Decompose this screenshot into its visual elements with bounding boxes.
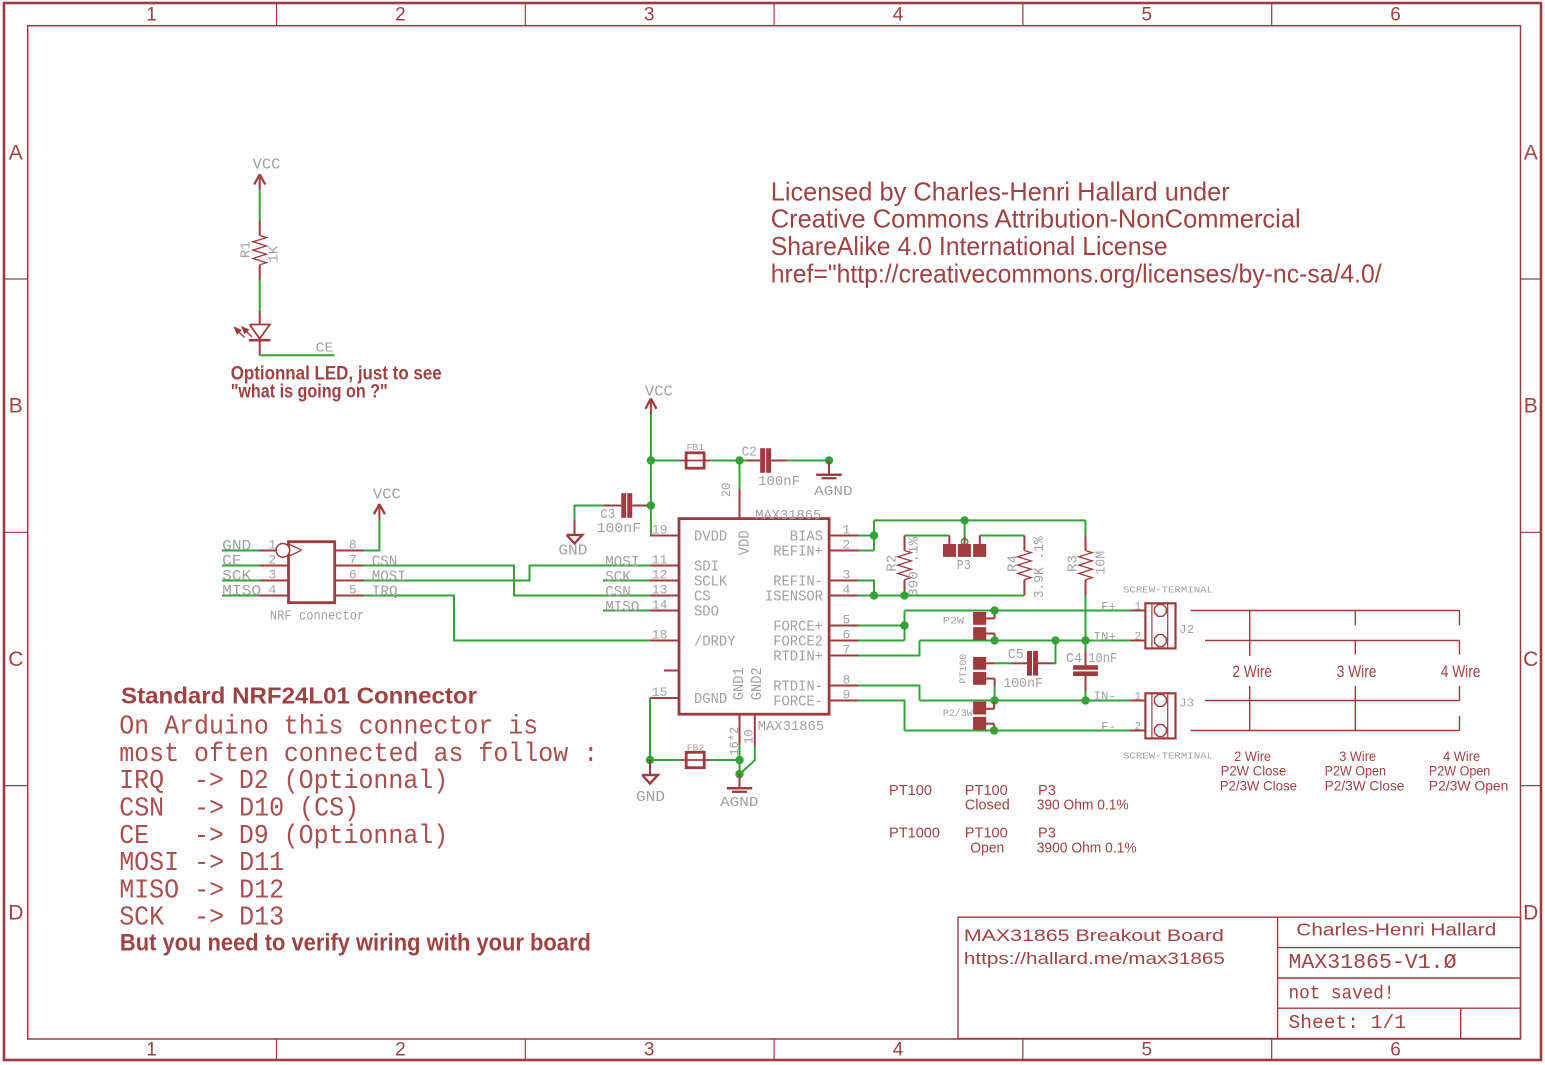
wire pin 10 down diagonal — [740, 745, 755, 774]
svg-text:SDO: SDO — [694, 604, 719, 620]
svg-text:2: 2 — [395, 5, 406, 26]
wire IRQ net to /DRDY — [364, 596, 650, 641]
svg-text:VCC: VCC — [373, 487, 401, 503]
svg-text:2 Wire: 2 Wire — [1232, 663, 1272, 681]
svg-text:SCLK: SCLK — [694, 574, 727, 590]
svg-text:3 Wire: 3 Wire — [1339, 748, 1376, 764]
svg-text:SCK: SCK — [222, 569, 252, 585]
wire pin3 REFIN- — [858, 581, 874, 596]
jumper P3 pads — [943, 544, 956, 557]
svg-text:FB2: FB2 — [687, 743, 705, 754]
svg-text:REFIN-: REFIN- — [773, 574, 823, 590]
wire P3 right pad to R4 top — [980, 535, 1025, 537]
svg-text:1: 1 — [1135, 692, 1142, 704]
svg-text:GND: GND — [636, 790, 665, 806]
svg-text:7: 7 — [843, 642, 851, 657]
wire VCC rail down to DVDD — [650, 414, 652, 536]
svg-text:RTDIN-: RTDIN- — [773, 679, 823, 695]
svg-text:10nF: 10nF — [1088, 652, 1117, 667]
svg-text:VCC: VCC — [253, 158, 281, 174]
capacitor C5 — [1027, 651, 1032, 676]
4-wire column stubs — [1459, 611, 1461, 626]
svg-text:Open: Open — [970, 839, 1004, 856]
svg-text:IN-: IN- — [1093, 690, 1116, 704]
svg-text:CE: CE — [316, 341, 334, 356]
wire pin9 FORCE- to F- line — [858, 701, 905, 731]
svg-text:C: C — [8, 648, 23, 671]
IC right pins — [829, 535, 858, 537]
svg-text:6: 6 — [1390, 5, 1401, 26]
wire FB1 to C2 — [711, 460, 746, 462]
ferrite bead FB2 — [680, 759, 711, 761]
svg-text:CE -> D9 (Optionnal): CE -> D9 (Optionnal) — [119, 821, 448, 851]
svg-text:MAX31865 Breakout Board: MAX31865 Breakout Board — [964, 927, 1224, 945]
resistor R1 — [259, 221, 261, 236]
wire top net to R3 — [874, 519, 1086, 521]
svg-text:PT100: PT100 — [889, 782, 932, 799]
svg-text:R4: R4 — [1006, 555, 1021, 572]
svg-text:Standard NRF24L01 Connector: Standard NRF24L01 Connector — [121, 682, 477, 708]
svg-text:ShareAlike 4.0 International L: ShareAlike 4.0 International License — [771, 231, 1168, 261]
svg-text:FORCE+: FORCE+ — [773, 619, 823, 635]
svg-text:FORCE-: FORCE- — [773, 694, 823, 710]
svg-text:SDI: SDI — [694, 559, 719, 575]
wire to AGND — [739, 760, 741, 774]
svg-text:IN+: IN+ — [1093, 630, 1116, 644]
svg-text:11: 11 — [652, 552, 668, 567]
svg-text:CS: CS — [694, 589, 711, 605]
wire C2 to AGND — [787, 460, 829, 462]
svg-text:R2: R2 — [885, 555, 900, 572]
svg-text:6: 6 — [1390, 1040, 1401, 1061]
svg-text:GND1: GND1 — [732, 667, 748, 700]
svg-text:"what is going on ?": "what is going on ?" — [231, 382, 388, 403]
wire CSN net — [364, 566, 650, 596]
svg-text:GND: GND — [222, 539, 251, 555]
wire ISENSOR net — [858, 595, 1024, 597]
wire R1 to LED — [259, 280, 261, 311]
wire pin5 FORCE+ — [858, 625, 905, 627]
ground AGND — [739, 774, 741, 787]
svg-text:ISENSOR: ISENSOR — [765, 589, 823, 605]
3-wire column stubs — [1354, 611, 1356, 626]
resistor R3 — [1085, 536, 1087, 551]
ferrite bead FB1 — [680, 460, 711, 462]
svg-text:But you need to verify wiring: But you need to verify wiring with your … — [120, 929, 591, 956]
svg-text:2: 2 — [269, 552, 277, 567]
svg-text:D: D — [8, 901, 23, 924]
svg-text:MOSI: MOSI — [372, 569, 406, 585]
wire F+ line — [905, 610, 1131, 612]
screw terminal J3 — [1145, 693, 1175, 738]
wire to P3 center pad — [964, 520, 966, 536]
wire C3 to GND — [575, 506, 604, 520]
ground GND — [574, 520, 576, 535]
wire MOSI net — [364, 566, 650, 581]
svg-text:DGND: DGND — [694, 692, 727, 708]
svg-text:NRF connector: NRF connector — [270, 608, 364, 624]
svg-text:20: 20 — [720, 483, 734, 498]
svg-text:J3: J3 — [1179, 697, 1194, 711]
svg-text:4: 4 — [893, 5, 904, 26]
svg-text:2 Wire: 2 Wire — [1234, 748, 1271, 764]
svg-text:1: 1 — [146, 5, 157, 26]
svg-text:FORCE2: FORCE2 — [773, 634, 823, 650]
connector NRF24L01 J1 — [289, 542, 335, 603]
svg-text:1: 1 — [1135, 602, 1142, 614]
wire MISO stub at IC — [603, 610, 650, 612]
svg-text:IRQ -> D2 (Optionnal): IRQ -> D2 (Optionnal) — [119, 766, 448, 796]
svg-text:13: 13 — [652, 582, 668, 597]
svg-text:GND: GND — [558, 543, 587, 559]
svg-text:4: 4 — [843, 582, 851, 597]
svg-text:VCC: VCC — [645, 384, 673, 400]
svg-text:100nF: 100nF — [758, 475, 800, 490]
svg-text:A: A — [1524, 141, 1538, 164]
wire FB2 to AGND junction — [711, 759, 740, 761]
svg-text:MAX31865-V1.Ø: MAX31865-V1.Ø — [1289, 951, 1457, 975]
LED D1 — [259, 311, 261, 325]
svg-text:SCK: SCK — [605, 570, 631, 586]
svg-text:P2W: P2W — [943, 615, 965, 627]
IC left pins — [650, 535, 679, 537]
svg-text:https://hallard.me/max31865: https://hallard.me/max31865 — [964, 950, 1225, 968]
svg-text:href="http://creativecommons.o: href="http://creativecommons.org/license… — [771, 259, 1383, 289]
svg-text:BIAS: BIAS — [790, 529, 823, 545]
solder jumper P2W — [973, 612, 986, 625]
svg-text:5: 5 — [1142, 5, 1153, 26]
svg-text:4 Wire: 4 Wire — [1443, 748, 1480, 764]
svg-text:7: 7 — [349, 552, 357, 567]
capacitor C4 — [1073, 665, 1098, 670]
svg-text:4: 4 — [269, 582, 277, 597]
svg-text:1: 1 — [146, 1040, 157, 1061]
svg-text:P2/3W Close: P2/3W Close — [1220, 778, 1297, 794]
svg-text:AGND: AGND — [720, 795, 759, 811]
wire top net corner to R3 top — [1085, 520, 1087, 535]
solder jumper P2/3W — [973, 702, 986, 715]
svg-text:2: 2 — [395, 1040, 406, 1061]
svg-text:2: 2 — [843, 537, 851, 552]
svg-text:14: 14 — [652, 597, 668, 612]
wire IN+ line — [920, 640, 1131, 642]
svg-text:390 .1%: 390 .1% — [907, 536, 922, 597]
svg-text:MISO: MISO — [222, 584, 261, 600]
svg-text:9: 9 — [843, 687, 851, 702]
svg-text:RTDIN+: RTDIN+ — [773, 649, 823, 665]
svg-text:3.9K .1%: 3.9K .1% — [1033, 535, 1048, 598]
IC top pin 20 VDD — [739, 490, 741, 519]
svg-text:100nF: 100nF — [597, 522, 641, 537]
svg-text:not saved!: not saved! — [1289, 983, 1395, 1005]
svg-text:2: 2 — [1135, 722, 1142, 734]
svg-text:PT1000: PT1000 — [889, 825, 940, 842]
wire LED to CE label — [260, 354, 335, 356]
svg-text:18: 18 — [652, 627, 668, 642]
wire F- line — [905, 730, 1131, 732]
svg-text:4: 4 — [893, 1040, 904, 1061]
svg-text:B: B — [9, 395, 23, 418]
net stub GND — [222, 550, 260, 552]
svg-text:MOSI -> D11: MOSI -> D11 — [119, 848, 284, 878]
svg-text:8: 8 — [349, 537, 357, 552]
ground AGND — [828, 461, 830, 474]
junction — [647, 456, 655, 464]
svg-text:1: 1 — [269, 537, 277, 552]
svg-text:F+: F+ — [1101, 600, 1116, 614]
svg-text:10M: 10M — [1094, 551, 1109, 575]
svg-text:4 Wire: 4 Wire — [1441, 663, 1481, 681]
svg-text:Licensed by Charles-Henri Hall: Licensed by Charles-Henri Hallard under — [771, 177, 1230, 207]
svg-text:3: 3 — [269, 567, 277, 582]
svg-text:1K: 1K — [267, 245, 282, 263]
svg-text:12: 12 — [652, 567, 668, 582]
svg-text:IRQ: IRQ — [372, 584, 398, 600]
svg-text:D: D — [1523, 901, 1538, 924]
svg-text:P2/3W Close: P2/3W Close — [1325, 778, 1405, 794]
resistor R2 — [904, 536, 906, 551]
svg-text:F-: F- — [1101, 720, 1116, 734]
svg-text:SCREW-TERMINAL: SCREW-TERMINAL — [1123, 586, 1213, 596]
net stub MISO — [222, 595, 260, 597]
svg-text:P2W Close: P2W Close — [1221, 763, 1287, 779]
svg-text:6: 6 — [843, 627, 851, 642]
wire IN- line — [920, 700, 1131, 702]
net stub SCK — [222, 580, 260, 582]
svg-text:VDD: VDD — [737, 530, 753, 555]
svg-text:15: 15 — [652, 685, 668, 700]
svg-text:On Arduino this connector is: On Arduino this connector is — [119, 712, 538, 742]
svg-text:FB1: FB1 — [687, 442, 705, 453]
IC bottom pins — [739, 714, 741, 745]
screw terminal J2 — [1145, 603, 1175, 648]
wire pin1 BIAS — [858, 535, 874, 537]
ground GND — [649, 760, 651, 775]
svg-text:3 Wire: 3 Wire — [1337, 663, 1377, 681]
wire DGND to FB2 and GND — [649, 698, 651, 760]
svg-text:SCREW-TERMINAL: SCREW-TERMINAL — [1123, 752, 1213, 762]
wire pin2 REFIN+ — [858, 550, 874, 552]
wire pin6 FORCE2 — [858, 640, 905, 642]
IC nc pin stub — [664, 670, 679, 672]
svg-text:R3: R3 — [1066, 555, 1081, 572]
svg-text:5: 5 — [1142, 1040, 1153, 1061]
svg-text:REFIN+: REFIN+ — [773, 544, 823, 560]
wire R2 top to P3 left pad — [905, 535, 950, 537]
wire pin7 RTDIN+ — [858, 641, 920, 656]
svg-text:1: 1 — [843, 522, 851, 537]
svg-text:C: C — [1523, 648, 1538, 671]
svg-text:8: 8 — [843, 672, 851, 687]
wire to pin 20 — [739, 461, 741, 490]
svg-text:P2/3W: P2/3W — [943, 708, 973, 720]
svg-text:Charles-Henri Hallard: Charles-Henri Hallard — [1296, 919, 1496, 939]
svg-text:MAX31865: MAX31865 — [755, 509, 821, 524]
svg-text:AGND: AGND — [814, 484, 853, 500]
svg-text:19: 19 — [652, 522, 668, 537]
svg-text:CE: CE — [222, 554, 242, 570]
svg-text:R1: R1 — [239, 241, 254, 258]
svg-text:B: B — [1524, 395, 1538, 418]
svg-text:C4: C4 — [1066, 652, 1082, 667]
svg-text:MOSI: MOSI — [605, 555, 639, 571]
wire pin 16*2 down — [739, 745, 741, 760]
svg-text:CSN: CSN — [372, 554, 398, 570]
svg-text:Creative Commons Attribution-N: Creative Commons Attribution-NonCommerci… — [771, 204, 1301, 234]
svg-text:MISO -> D12: MISO -> D12 — [119, 875, 284, 905]
svg-text:SCK -> D13: SCK -> D13 — [119, 903, 284, 933]
svg-text:100nF: 100nF — [1003, 677, 1043, 692]
svg-text:Closed: Closed — [965, 796, 1010, 813]
svg-text:6: 6 — [349, 567, 357, 582]
svg-text:MAX31865: MAX31865 — [758, 720, 825, 735]
wire R3 bottom to IN+ — [1085, 596, 1087, 651]
svg-text:P3: P3 — [957, 559, 971, 574]
svg-text:3: 3 — [843, 567, 851, 582]
wire VCC to R1 — [259, 190, 261, 221]
capacitor C2 — [760, 448, 765, 473]
svg-text:CSN -> D10 (CS): CSN -> D10 (CS) — [119, 794, 359, 824]
wire SCK stub at IC — [603, 580, 650, 582]
wire pin8 RTDIN- to IN- line — [858, 686, 920, 701]
svg-text:most often connected as follow: most often connected as follow : — [119, 739, 598, 769]
svg-text:J2: J2 — [1179, 623, 1194, 637]
svg-text:3: 3 — [644, 1040, 655, 1061]
svg-text:2: 2 — [1135, 632, 1142, 644]
svg-text:CSN: CSN — [605, 585, 631, 601]
svg-text:A: A — [9, 141, 23, 164]
svg-text:5: 5 — [843, 612, 851, 627]
svg-text:GND2: GND2 — [750, 667, 766, 700]
wire to FB1 — [651, 460, 680, 462]
capacitor C3 — [621, 493, 626, 518]
svg-text:Sheet: 1/1: Sheet: 1/1 — [1289, 1012, 1407, 1034]
svg-text:DVDD: DVDD — [694, 529, 727, 545]
svg-text:P2/3W Open: P2/3W Open — [1429, 778, 1509, 794]
svg-text:/DRDY: /DRDY — [694, 634, 736, 650]
IC MAX31865 U1 — [679, 519, 829, 715]
title block — [958, 917, 1521, 1038]
svg-text:MISO: MISO — [605, 600, 639, 616]
2-wire column stubs — [1249, 611, 1251, 657]
svg-text:3: 3 — [644, 5, 655, 26]
svg-text:C5: C5 — [1008, 648, 1024, 663]
svg-text:P2W Open: P2W Open — [1429, 763, 1490, 779]
svg-text:5: 5 — [349, 582, 357, 597]
svg-text:10: 10 — [743, 729, 757, 744]
solder jumper PT100 — [973, 657, 986, 670]
RTD wiring diagram lines — [1191, 610, 1460, 612]
svg-text:C3: C3 — [600, 508, 615, 523]
wire NRF pin8 to VCC — [364, 520, 379, 551]
svg-text:P2W Open: P2W Open — [1325, 763, 1386, 779]
svg-text:390 Ohm 0.1%: 390 Ohm 0.1% — [1037, 796, 1129, 813]
svg-text:PT100: PT100 — [958, 654, 970, 684]
svg-text:C2: C2 — [742, 445, 757, 460]
resistor R4 — [1023, 536, 1025, 551]
svg-text:3900 Ohm 0.1%: 3900 Ohm 0.1% — [1037, 839, 1137, 856]
net stub CE — [222, 565, 260, 567]
